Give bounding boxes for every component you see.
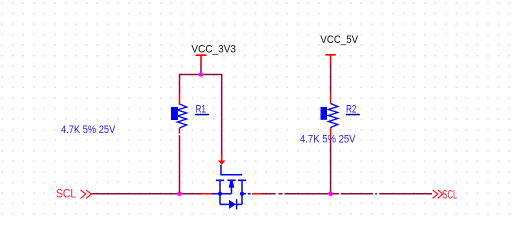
drain stub xyxy=(242,193,251,195)
svg-text:SCL: SCL xyxy=(442,189,457,201)
svg-text:VCC_3V3: VCC_3V3 xyxy=(191,44,236,56)
svg-text:SCL: SCL xyxy=(56,189,77,201)
pin drain (red) xyxy=(252,193,262,195)
wire rail right to SCL output xyxy=(262,193,433,195)
source stem xyxy=(219,180,221,204)
wire VCC_5V to R2 top xyxy=(330,64,332,95)
pin source (red) xyxy=(202,193,212,195)
body diode xyxy=(220,203,229,205)
wire R1 bottom to rail xyxy=(179,135,181,194)
power symbol VCC_3V3 xyxy=(196,55,207,73)
label R1 xyxy=(195,104,209,116)
junction at R2 bottom xyxy=(328,192,333,197)
channel caps xyxy=(216,179,246,181)
port SCL left chevrons xyxy=(81,190,92,199)
wire R2 bottom to rail xyxy=(330,140,332,194)
resistor R1 xyxy=(171,94,187,134)
source rail xyxy=(212,193,232,195)
junction at R1 bottom xyxy=(177,192,182,197)
svg-text:4.7K 5% 25V: 4.7K 5% 25V xyxy=(300,134,356,146)
wire gate arrow xyxy=(218,154,226,165)
label R2 xyxy=(346,104,360,116)
pin dots xyxy=(218,192,222,196)
port SCL right chevrons xyxy=(433,190,443,199)
svg-text:4.7K 5% 25V: 4.7K 5% 25V xyxy=(61,124,116,136)
power symbol VCC_5V xyxy=(325,55,336,64)
junction at VCC_3V3 xyxy=(199,72,204,77)
gate lead xyxy=(221,165,242,175)
substrate arrow xyxy=(229,181,235,188)
svg-text:VCC_5V: VCC_5V xyxy=(320,34,358,46)
resistor R2 xyxy=(321,94,338,140)
svg-text:R2: R2 xyxy=(346,104,357,116)
wire SCL left rail xyxy=(91,193,202,195)
wire VCC_3V3 to R1 top and gate xyxy=(180,75,222,155)
drain stem xyxy=(241,180,243,204)
svg-text:R1: R1 xyxy=(196,104,207,116)
transistor Q1 (N-MOSFET) xyxy=(212,165,251,210)
